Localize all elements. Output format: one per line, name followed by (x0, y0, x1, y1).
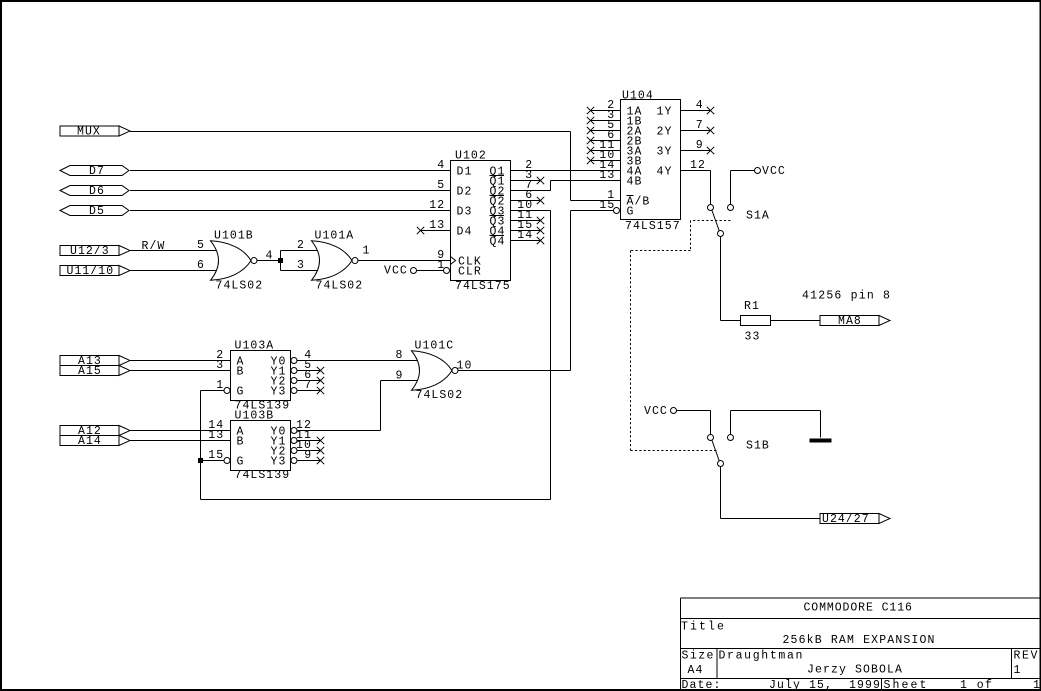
wire U102 Q2 pin 7 (511, 190, 551, 192)
svg-text:CLR: CLR (458, 266, 482, 279)
VCC terminal (S1B) (671, 408, 677, 414)
signal flag D5 (60, 206, 129, 216)
dashed link vertical 2 (630, 251, 632, 451)
svg-text:Y3: Y3 (271, 386, 287, 399)
svg-text:U101A: U101A (315, 230, 355, 243)
svg-text:B: B (237, 366, 245, 379)
NOR gate U101A 74LS02 (312, 241, 353, 280)
wire U101A output pin 1 to U102 CLK (358, 260, 451, 262)
no-connect X U104 1B (587, 117, 594, 124)
svg-text:D6: D6 (89, 185, 105, 198)
wire to R1 (721, 320, 741, 322)
wire U102 Q4 pin 15 stub (511, 230, 541, 232)
svg-text:COMMODORE C116: COMMODORE C116 (804, 602, 914, 615)
wire U104 1Y pin 4 stub (681, 110, 711, 112)
U103B Y2 bubble (291, 448, 297, 454)
wire Q3 net vertical up to U103 G pins (200, 391, 202, 500)
U103A Y3 bubble (291, 388, 297, 394)
NOR gate U101B 74LS02 (211, 241, 252, 280)
wire D5 to U102 D3 (130, 210, 451, 212)
svg-text:74LS02: 74LS02 (416, 389, 464, 402)
svg-text:A15: A15 (78, 365, 102, 378)
wire U104 1B pin 3 stub (591, 120, 621, 122)
svg-text:3Y: 3Y (657, 146, 673, 159)
signal flag U24/27 (820, 514, 879, 524)
wire Q2 jog vertical (550, 181, 552, 191)
no-connect X U102 /Q1 (537, 177, 544, 184)
no-connect X U102 /Q2 (537, 197, 544, 204)
svg-text:2: 2 (297, 239, 305, 252)
wire A15 to U103A B (130, 370, 231, 372)
signal flag A12 (60, 426, 119, 436)
wire U104 G pin 15 stub (571, 210, 614, 212)
wire U103B Y2 pin 10 stub (297, 450, 321, 452)
svg-text:S1A: S1A (746, 210, 770, 223)
signal flag A14 (60, 436, 119, 446)
wire Y0 riser (380, 381, 382, 431)
no-connect X U104 1A (587, 107, 594, 114)
wire U102 Q3 pin 10 (511, 210, 551, 212)
wire to U101A pin 2 (281, 250, 319, 252)
wire U103A Y2 pin 6 stub (297, 380, 321, 382)
NOR gate U101C 74LS02 (412, 351, 453, 391)
no-connect X U102 D4 (417, 227, 424, 234)
wire U104 2A pin 5 stub (591, 130, 621, 132)
wire U104 3Y pin 9 stub (681, 150, 711, 152)
switch S1B blade (712, 441, 719, 462)
svg-text:MUX: MUX (77, 126, 101, 139)
svg-text:41256 pin 8: 41256 pin 8 (802, 290, 891, 303)
page border bottom (0, 689, 1041, 691)
wire U104 3A pin 11 stub (591, 150, 621, 152)
wire MUX net vertical to U104 A/B (570, 132, 572, 201)
svg-text:1: 1 (216, 379, 224, 392)
svg-text:256kB RAM EXPANSION: 256kB RAM EXPANSION (783, 634, 936, 647)
U103A Y0 bubble (291, 358, 297, 364)
switch S1B left terminal (708, 435, 714, 441)
IC U103B 74LS139 body (231, 421, 291, 471)
signal flag D7 (60, 166, 129, 176)
no-connect X U104 2A (587, 127, 594, 134)
wire VCC to S1A (731, 170, 755, 172)
title block outline (681, 597, 1041, 599)
svg-text:REV: REV (1014, 650, 1039, 663)
switch S1B right terminal (728, 435, 734, 441)
IC U104 74LS157 body (621, 100, 681, 220)
resistor R1 body (741, 316, 771, 326)
dashed link S1A horizontal (691, 220, 731, 222)
svg-text:1: 1 (363, 245, 371, 258)
wire U103A Y1 pin 5 stub (297, 370, 321, 372)
svg-text:Size: Size (682, 650, 715, 663)
svg-text:4B: 4B (627, 176, 643, 189)
svg-text:15: 15 (208, 449, 224, 462)
wire U104 2Y pin 7 stub (681, 130, 711, 132)
wire to U104 4B pin 13 (551, 180, 621, 182)
switch S1A right terminal (728, 205, 734, 211)
wire R/W U12/3 to U101B pin 5 (130, 250, 217, 252)
U103B Y1 bubble (291, 438, 297, 444)
no-connect X U104 2B (587, 137, 594, 144)
svg-text:U102: U102 (455, 150, 487, 163)
svg-text:7: 7 (696, 119, 704, 132)
svg-text:5: 5 (197, 239, 205, 252)
svg-text:D7: D7 (89, 165, 105, 178)
wire U103B Y3 pin 9 stub (297, 460, 321, 462)
switch S1A left terminal (708, 205, 714, 211)
junction dot U101B output (278, 258, 283, 263)
svg-text:U103A: U103A (235, 340, 275, 353)
no-connect X U102 Q4 (537, 227, 544, 234)
svg-text:U101B: U101B (214, 230, 254, 243)
svg-text:D5: D5 (89, 205, 105, 218)
wire junction bracket vertical (280, 251, 282, 271)
page border top (0, 0, 1041, 2)
wire U102 /Q1 pin 3 stub (511, 180, 541, 182)
svg-text:1: 1 (437, 259, 445, 272)
svg-text:13: 13 (599, 169, 615, 182)
svg-text:5: 5 (437, 179, 445, 192)
wire U103A Y3 pin 7 stub (297, 390, 321, 392)
U103B G bubble (224, 458, 230, 464)
title block divider Size (716, 649, 718, 679)
no-connect X U104 2Y (707, 127, 714, 134)
wire S1A pole down (720, 237, 722, 321)
svg-text:D2: D2 (457, 186, 473, 199)
ground symbol (810, 439, 832, 443)
wire to U101A pin 3 (281, 270, 319, 272)
svg-text:74LS02: 74LS02 (316, 280, 364, 293)
junction node U103 G rail (198, 458, 203, 463)
U103A G bubble (224, 388, 230, 394)
wire U103B Y0 pin 12 (297, 430, 381, 432)
wire down to S1B left terminal (710, 411, 712, 435)
title block divider Sheet (881, 679, 883, 691)
wire U101C output pin 10 horizontal (457, 370, 571, 372)
svg-text:4: 4 (266, 250, 274, 263)
svg-text:3: 3 (216, 359, 224, 372)
svg-text:74LS175: 74LS175 (455, 280, 511, 293)
wire Q3 net vertical down (550, 211, 552, 500)
svg-text:VCC: VCC (644, 405, 668, 418)
no-connect X U103B Y2 (317, 447, 324, 454)
svg-text:9: 9 (396, 370, 404, 383)
wire S1B pole down (720, 467, 722, 519)
svg-text:74LS157: 74LS157 (625, 220, 681, 233)
svg-text:13: 13 (208, 429, 224, 442)
page border left (0, 0, 2, 691)
svg-text:9: 9 (696, 139, 704, 152)
svg-text:D1: D1 (457, 166, 473, 179)
svg-text:7: 7 (304, 379, 312, 392)
dashed link S1B horizontal (631, 450, 719, 452)
wire U11/10 to U101B pin 6 (130, 270, 217, 272)
no-connect X U104 3A (587, 147, 594, 154)
wire U104 pin 1 A/B stub (571, 200, 621, 202)
IC U102 74LS175 body (451, 161, 511, 281)
wire to U101C pin 9 (381, 380, 418, 382)
svg-text:U12/3: U12/3 (70, 245, 110, 258)
svg-text:1Y: 1Y (657, 106, 673, 119)
svg-text:Draughtman: Draughtman (719, 650, 804, 663)
wire U104 3B pin 10 stub (591, 160, 621, 162)
svg-text:4: 4 (437, 159, 445, 172)
svg-text:10: 10 (457, 360, 473, 373)
wire A12 to U103B A (130, 430, 231, 432)
wire U101B output pin 4 to junction (257, 260, 281, 262)
svg-text:A4: A4 (688, 664, 704, 677)
wire VCC to S1B (677, 410, 711, 412)
svg-text:D3: D3 (457, 206, 473, 219)
wire A13 to U103A A (130, 360, 231, 362)
wire U103B G pin 15 stub (201, 460, 225, 462)
U103B Y3 bubble (291, 458, 297, 464)
U102 CLR bubble (444, 268, 450, 274)
wire VCC down to S1A right terminal (730, 171, 732, 205)
U104 G bubble (614, 208, 620, 214)
signal flag MUX (60, 126, 119, 136)
wire down to ground (820, 411, 822, 438)
svg-text:Title: Title (681, 621, 725, 634)
no-connect X U103B Y3 (317, 457, 324, 464)
wire U104 G net vertical (570, 211, 572, 371)
wire U104 4Y pin 12 (681, 170, 711, 172)
svg-text:74LS139: 74LS139 (235, 469, 291, 482)
U102 CLK edge triangle (451, 257, 456, 265)
svg-text:Jerzy SOBOLA: Jerzy SOBOLA (807, 664, 903, 677)
wire U102 /Q4 pin 14 stub (511, 240, 541, 242)
svg-text:8: 8 (396, 349, 404, 362)
svg-text:R/W: R/W (142, 240, 166, 253)
svg-text:4Y: 4Y (657, 166, 673, 179)
svg-text:U104: U104 (622, 90, 654, 103)
switch S1A blade (712, 211, 719, 232)
wire U103A G pin 1 stub (201, 390, 225, 392)
U103B Y0 bubble (291, 428, 297, 434)
signal flag A15 (60, 366, 119, 376)
svg-text:6: 6 (197, 259, 205, 272)
signal flag A13 (60, 356, 119, 366)
wire MUX net horizontal (130, 131, 571, 133)
signal flag D6 (60, 186, 129, 196)
svg-text:4: 4 (696, 99, 704, 112)
svg-text:14: 14 (517, 229, 533, 242)
svg-text:3: 3 (297, 259, 305, 272)
wire U102 D4 no-connect stub (421, 230, 451, 232)
wire A14 to U103B B (130, 440, 231, 442)
no-connect X U102 /Q3 (537, 217, 544, 224)
svg-text:S1B: S1B (746, 440, 770, 453)
wire U104 1A pin 2 stub (591, 110, 621, 112)
IC U103A 74LS139 body (231, 351, 291, 401)
no-connect X U102 /Q4 (537, 237, 544, 244)
svg-text:U103B: U103B (235, 410, 275, 423)
page border right (1039, 0, 1041, 691)
wire VCC to U102 CLR (417, 270, 444, 272)
svg-text:13: 13 (429, 219, 445, 232)
switch S1B pole circle (718, 461, 724, 467)
svg-text:VCC: VCC (384, 265, 408, 278)
no-connect X U103A Y1 (317, 367, 324, 374)
VCC terminal (U102 CLR) (411, 268, 417, 274)
signal flag MA8 (820, 316, 879, 326)
svg-text:B: B (237, 436, 245, 449)
no-connect X U104 3Y (707, 147, 714, 154)
svg-text:U24/27: U24/27 (822, 513, 870, 526)
svg-text:15: 15 (599, 199, 615, 212)
no-connect X U103A Y2 (317, 377, 324, 384)
wire U103A Y0 pin 4 to U101C pin 8 (297, 360, 417, 362)
svg-text:U11/10: U11/10 (67, 265, 115, 278)
wire R1 to MA8 flag (771, 320, 821, 322)
svg-text:9: 9 (304, 449, 312, 462)
svg-text:2Y: 2Y (657, 126, 673, 139)
wire D6 to U102 D2 (130, 190, 451, 192)
wire D7 to U102 D1 (130, 170, 451, 172)
svg-text:Q4: Q4 (490, 236, 506, 249)
wire to U24/27 flag (721, 518, 821, 520)
no-connect X U103B Y1 (317, 437, 324, 444)
signal flag U12/3 (60, 246, 119, 256)
svg-text:33: 33 (745, 331, 761, 344)
switch S1A pole circle (718, 231, 724, 237)
svg-text:A14: A14 (78, 435, 102, 448)
svg-text:D4: D4 (457, 226, 473, 239)
svg-text:1: 1 (1014, 664, 1022, 677)
svg-text:G: G (627, 206, 635, 219)
title block divider REV (1011, 649, 1013, 679)
no-connect X U103A Y3 (317, 387, 324, 394)
VCC terminal top (S1A) (755, 168, 761, 174)
wire Q3 net bottom horizontal (201, 499, 551, 501)
dashed link vertical 1 (690, 221, 692, 251)
no-connect X U104 1Y (707, 107, 714, 114)
U103A Y2 bubble (291, 378, 297, 384)
svg-text:U101C: U101C (415, 340, 455, 353)
svg-text:12: 12 (429, 199, 445, 212)
svg-text:74LS02: 74LS02 (216, 280, 264, 293)
svg-text:R1: R1 (744, 300, 760, 313)
wire 4Y down to S1A (710, 171, 712, 205)
svg-text:VCC: VCC (762, 165, 786, 178)
dashed link horizontal 2 (631, 250, 691, 252)
wire U102 /Q3 pin 11 stub (511, 220, 541, 222)
svg-text:12: 12 (690, 159, 706, 172)
wire U102 /Q2 pin 6 stub (511, 200, 541, 202)
svg-text:G: G (237, 456, 245, 469)
U103A Y1 bubble (291, 368, 297, 374)
svg-text:G: G (237, 386, 245, 399)
wire U104 2B pin 6 stub (591, 140, 621, 142)
wire U103B Y1 pin 11 stub (297, 440, 321, 442)
svg-text:Y3: Y3 (271, 456, 287, 469)
svg-text:MA8: MA8 (838, 315, 862, 328)
wire U102 Q1 pin 2 to U104 4A pin 14 (511, 170, 621, 172)
wire S1B right terminal to ground (731, 410, 821, 412)
no-connect X U104 3B (587, 157, 594, 164)
signal flag U11/10 (60, 266, 119, 276)
wire S1B right terminal up (730, 411, 732, 435)
